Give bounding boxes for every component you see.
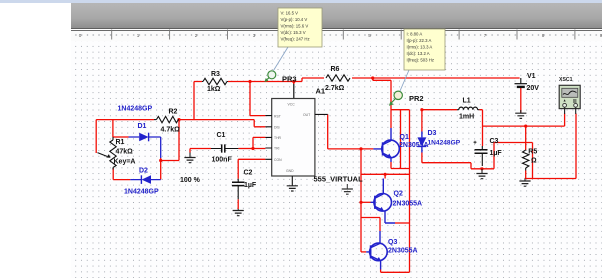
svg-text:Q2: Q2 [394,191,403,198]
wire: OUT of 555 down to base bus [328,114,374,148]
wire: collector node horizontal at y110 [391,109,410,111]
svg-text:THR: THR [274,136,282,140]
wire: short vertical x400.5 [400,110,402,169]
wire: R1 top row to D1 [113,136,129,138]
transistor Q1 2N3055A [373,128,428,162]
svg-text:100nF: 100nF [212,157,233,164]
wire: long vertical x409.5 down to emitter return [409,110,411,273]
resistor R6 [325,66,350,92]
ground under V1 [515,110,526,118]
wire: C3 bottom node runs [482,143,533,179]
svg-text:GND: GND [286,169,294,173]
svg-text:I(rms): 13.3 A: I(rms): 13.3 A [407,45,433,50]
svg-text:I(p-p): 22.3 A: I(p-p): 22.3 A [407,38,432,43]
svg-text:5: 5 [368,33,371,38]
svg-text:Key=A: Key=A [114,159,136,166]
svg-text:V(p-p): 10.4 V: V(p-p): 10.4 V [281,17,308,22]
resistor R5 [523,149,538,171]
svg-text:R6: R6 [331,66,340,73]
svg-text:2: 2 [195,33,198,38]
svg-text:D3: D3 [428,130,437,137]
svg-text:R2: R2 [169,109,178,116]
svg-text:V: 16.5 V: V: 16.5 V [281,11,299,16]
svg-text:3: 3 [253,33,256,38]
capacitor C1 100nF [211,132,238,164]
svg-text:2N3055A: 2N3055A [388,248,418,255]
diode D3 1N4248GP [417,130,460,153]
svg-text:V(dc): 15.3 V: V(dc): 15.3 V [281,30,306,35]
wire: diode node to R2 vertical [161,160,179,162]
wire: C2 bottom to ground [237,199,239,209]
wire: rail junction down to PR2 node and Q1 collector [373,78,391,128]
wire: RST vertical from rail [250,82,265,116]
transistor Q2 2N3055A [371,179,423,224]
wire: R2 right lead vertical down to diode node [178,120,180,161]
svg-text:C3: C3 [490,138,499,145]
svg-text:V1: V1 [527,73,536,80]
svg-text:1: 1 [137,33,140,38]
svg-text:R1: R1 [116,139,125,146]
svg-text:Q1: Q1 [400,134,409,141]
svg-text:C1: C1 [217,132,226,139]
wire: diode node down to D2 row [160,158,162,180]
svg-text:DIS: DIS [274,126,280,130]
svg-text:7: 7 [484,33,487,38]
svg-text:CON: CON [274,158,282,162]
svg-text:2N3055A: 2N3055A [393,201,423,208]
ground under C3 [476,169,487,179]
wire: left loop left vertical to pot wiper [95,120,97,153]
svg-text:2.7kΩ: 2.7kΩ [325,85,345,92]
svg-text:2N3055A: 2N3055A [399,142,429,149]
ground under C1 [184,153,195,163]
svg-text:1µF: 1µF [490,150,503,157]
wire: C1 right lead to TRI node [238,148,253,150]
wire: R2 row to DIS pin [254,120,265,127]
wire: Q2 emitter run to x409 [395,222,410,224]
svg-text:20V: 20V [527,85,540,92]
wire: Q3 emitter bottom return [381,270,410,273]
svg-text:VCC: VCC [288,103,296,107]
wire: bus spur at y174 to Q2 collector [361,174,410,178]
wire: THR-TRI tie vertical [253,137,265,148]
svg-text:1mH: 1mH [459,114,474,121]
svg-text:PR2: PR2 [409,94,424,103]
resistor R2 [154,109,180,134]
svg-text:555_VIRTUAL: 555_VIRTUAL [314,175,364,184]
battery V1 20V [515,73,540,92]
svg-text:I(dc): 13.2 A: I(dc): 13.2 A [407,51,430,56]
wire: CON row to C2 [238,159,265,179]
svg-text:1N4248GP: 1N4248GP [118,106,153,113]
probe PR3 [264,47,296,84]
wire: top supply rail from R3 row to V1 [194,78,520,82]
svg-text:RST: RST [274,114,281,118]
svg-text:XSC1: XSC1 [559,77,573,83]
transistor Q3 2N3055A [366,231,417,270]
wire: V1 negative to ground [520,87,522,112]
wire: Q3 base lead [361,251,366,253]
wire: output rail y126 to scope [483,114,565,127]
ground under C2 [233,209,244,216]
diode D1 1N4248GP [118,106,161,159]
probe PR2 [389,70,424,106]
svg-text:47kΩ: 47kΩ [116,149,134,156]
svg-text:0: 0 [79,33,82,38]
ruler tick dividers and numbers [79,30,602,40]
wire: D2 row to R1 bottom [113,168,130,180]
svg-text:V(freq): 247 Hz: V(freq): 247 Hz [281,37,310,42]
svg-text:V(rms): 15.6 V: V(rms): 15.6 V [281,24,309,29]
wire: ground row to scope right terminal [525,114,577,179]
wire: Q1 emitter run [391,162,410,169]
capacitor C3 1uF [474,138,503,166]
svg-text:L1: L1 [463,98,471,105]
diode D2 1N4248GP [124,168,161,196]
555 timer U A1 box [265,87,363,186]
oscilloscope XSC1 [559,77,580,114]
svg-text:C2: C2 [244,170,253,177]
wire: D3 top to collector net [421,110,423,132]
ground small mid (CON) [342,184,353,194]
svg-text:I: 8.80 A: I: 8.80 A [407,32,423,37]
svg-text:D1: D1 [138,123,147,130]
wire: left loop top row (R2 row) [96,119,254,121]
potentiometer R1 47k Key=A [98,137,136,170]
wire: base bus vertical Q1-Q2-Q3 [360,149,362,252]
wire: R5 top lead from rail [525,126,527,150]
svg-text:1kΩ: 1kΩ [207,86,221,93]
svg-text:I(freq): 503 Hz: I(freq): 503 Hz [407,58,434,63]
svg-text:100 %: 100 % [180,177,201,184]
svg-text:1N4248GP: 1N4248GP [124,189,159,196]
measurement box I probe [404,29,445,70]
svg-text:R5: R5 [528,149,537,156]
wire: D3 node to L1 [422,109,457,111]
measurement box V probe [278,8,322,47]
wire: VCC pin to rail [293,82,295,99]
wire: L1 right to output node down [479,110,482,146]
wire: Q2 base lead [361,201,371,203]
ground under R5 [519,179,530,187]
ground under 555 [287,186,298,191]
inductor L1 1mH [457,98,479,121]
svg-text:R3: R3 [211,71,220,78]
svg-text:1N4248GP: 1N4248GP [428,140,461,147]
svg-text:1µF: 1µF [244,182,257,189]
svg-text:OUT: OUT [303,113,310,117]
svg-text:D2: D2 [139,168,148,175]
svg-text:PR3: PR3 [282,75,297,84]
wire: C1 left lead to ground [190,149,211,153]
svg-text:Ω: Ω [531,158,537,165]
capacitor C2 1uF [232,170,257,200]
wire: bus spur at y217 to Q3 collector [361,218,380,232]
wire: R3 left vertical down to R2 row [193,82,195,120]
wire: D3 bottom run to C3 node [422,153,482,169]
svg-text:TRI: TRI [274,147,280,151]
svg-text:8: 8 [542,33,545,38]
wire: R1 top lead to top row [112,120,114,137]
svg-text:A1: A1 [316,87,326,96]
text 100% [180,177,201,184]
resistor R3 [202,71,228,93]
svg-text:Q3: Q3 [388,239,397,246]
svg-text:4.7kΩ: 4.7kΩ [161,127,181,134]
